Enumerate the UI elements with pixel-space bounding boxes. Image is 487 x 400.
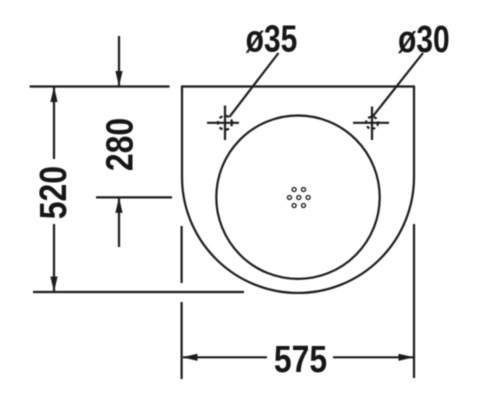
leader line o35 xyxy=(229,53,278,117)
svg-text:280: 280 xyxy=(99,118,141,171)
faucet hole crosshair left (o35) xyxy=(207,106,239,141)
dim 280: bottom extension line xyxy=(96,196,172,198)
dim 280: bottom arrow (outside, pointing up) xyxy=(115,197,122,247)
faucet hole crosshair right (o30) xyxy=(353,107,389,141)
washbasin outer outline xyxy=(182,87,414,293)
dim 575: right extension line xyxy=(413,224,415,378)
dim 280: top arrow (outside, pointing down) xyxy=(115,36,122,87)
dim 575: dimension line with arrows xyxy=(182,354,414,361)
dim 520: bottom extension line xyxy=(33,291,244,293)
dim 575: left extension line (broken where 520 ext line crosses) xyxy=(181,226,183,379)
svg-text:ø35: ø35 xyxy=(246,18,298,60)
drain holes (7 small circles) xyxy=(288,188,311,208)
svg-text:520: 520 xyxy=(32,166,74,219)
svg-text:ø30: ø30 xyxy=(398,19,450,61)
inner bowl circle xyxy=(216,116,379,279)
dim 520: top extension line xyxy=(30,85,170,87)
leader line o30 xyxy=(372,53,423,117)
dim 520: dimension line with arrows xyxy=(50,87,57,293)
svg-text:575: 575 xyxy=(274,338,327,380)
